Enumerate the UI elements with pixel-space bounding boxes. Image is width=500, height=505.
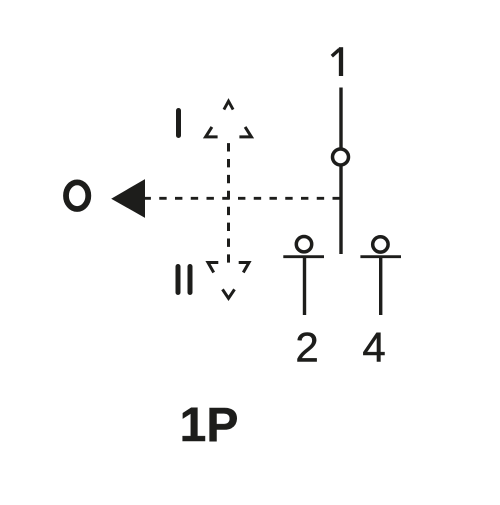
arrowhead up (dashed, direction I) [206,101,252,137]
node O label [66,182,88,209]
svg-text:2: 2 [295,324,318,371]
contact 4 circle [373,237,388,252]
contact 4 bar [360,255,401,258]
wire terminal 1 vertical [339,88,342,255]
contact 2 bar [283,255,324,258]
wire terminal 2 vertical [303,257,306,315]
movable contact circle on wire 1 [333,149,349,165]
svg-text:4: 4 [362,324,385,371]
terminal 1 label (digit drawn as strokes) [332,47,341,76]
node I label [176,111,181,136]
wire vertical dashed [227,143,230,263]
wire terminal 4 vertical [379,257,382,315]
actuator direction arrow O (solid left triangle) [111,179,145,218]
svg-text:1P: 1P [180,399,239,452]
arrowhead down (dashed, direction II) [208,263,249,299]
contact 2 circle [296,237,311,252]
wire horizontal dashed [145,197,342,200]
node II label [178,267,190,293]
